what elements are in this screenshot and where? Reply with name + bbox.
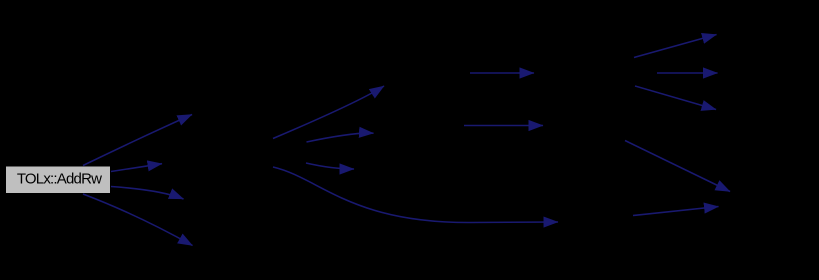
edge B4: node2b -> node4d (long curve) xyxy=(273,167,558,223)
edge C2: node3b -> node4b xyxy=(464,125,543,127)
edge A3: TOLx::AddRw -> node2c xyxy=(111,187,184,200)
edge B3: node2b -> node3c xyxy=(306,163,354,169)
edge D1: node4a -> node5a xyxy=(634,35,717,58)
edge D5: node4d -> node5e xyxy=(633,207,719,216)
edge D4: node4b -> node5e xyxy=(625,141,730,192)
edge C1: node3a -> node4a xyxy=(470,72,534,74)
edge A1: TOLx::AddRw -> node2a xyxy=(83,115,192,166)
edge A2: TOLx::AddRw -> node2b xyxy=(111,164,162,172)
edge A4: TOLx::AddRw -> node2d xyxy=(83,194,193,246)
edge B1: node2b -> node3a xyxy=(273,86,384,139)
svg-text:TOLx::AddRw: TOLx::AddRw xyxy=(17,171,102,188)
edge D3: node4a -> node5c xyxy=(635,86,716,110)
node TOLx::AddRw xyxy=(6,166,111,194)
edge B2: node2b -> node3b xyxy=(307,133,374,142)
edge D2: node4a -> node5b xyxy=(657,72,718,74)
